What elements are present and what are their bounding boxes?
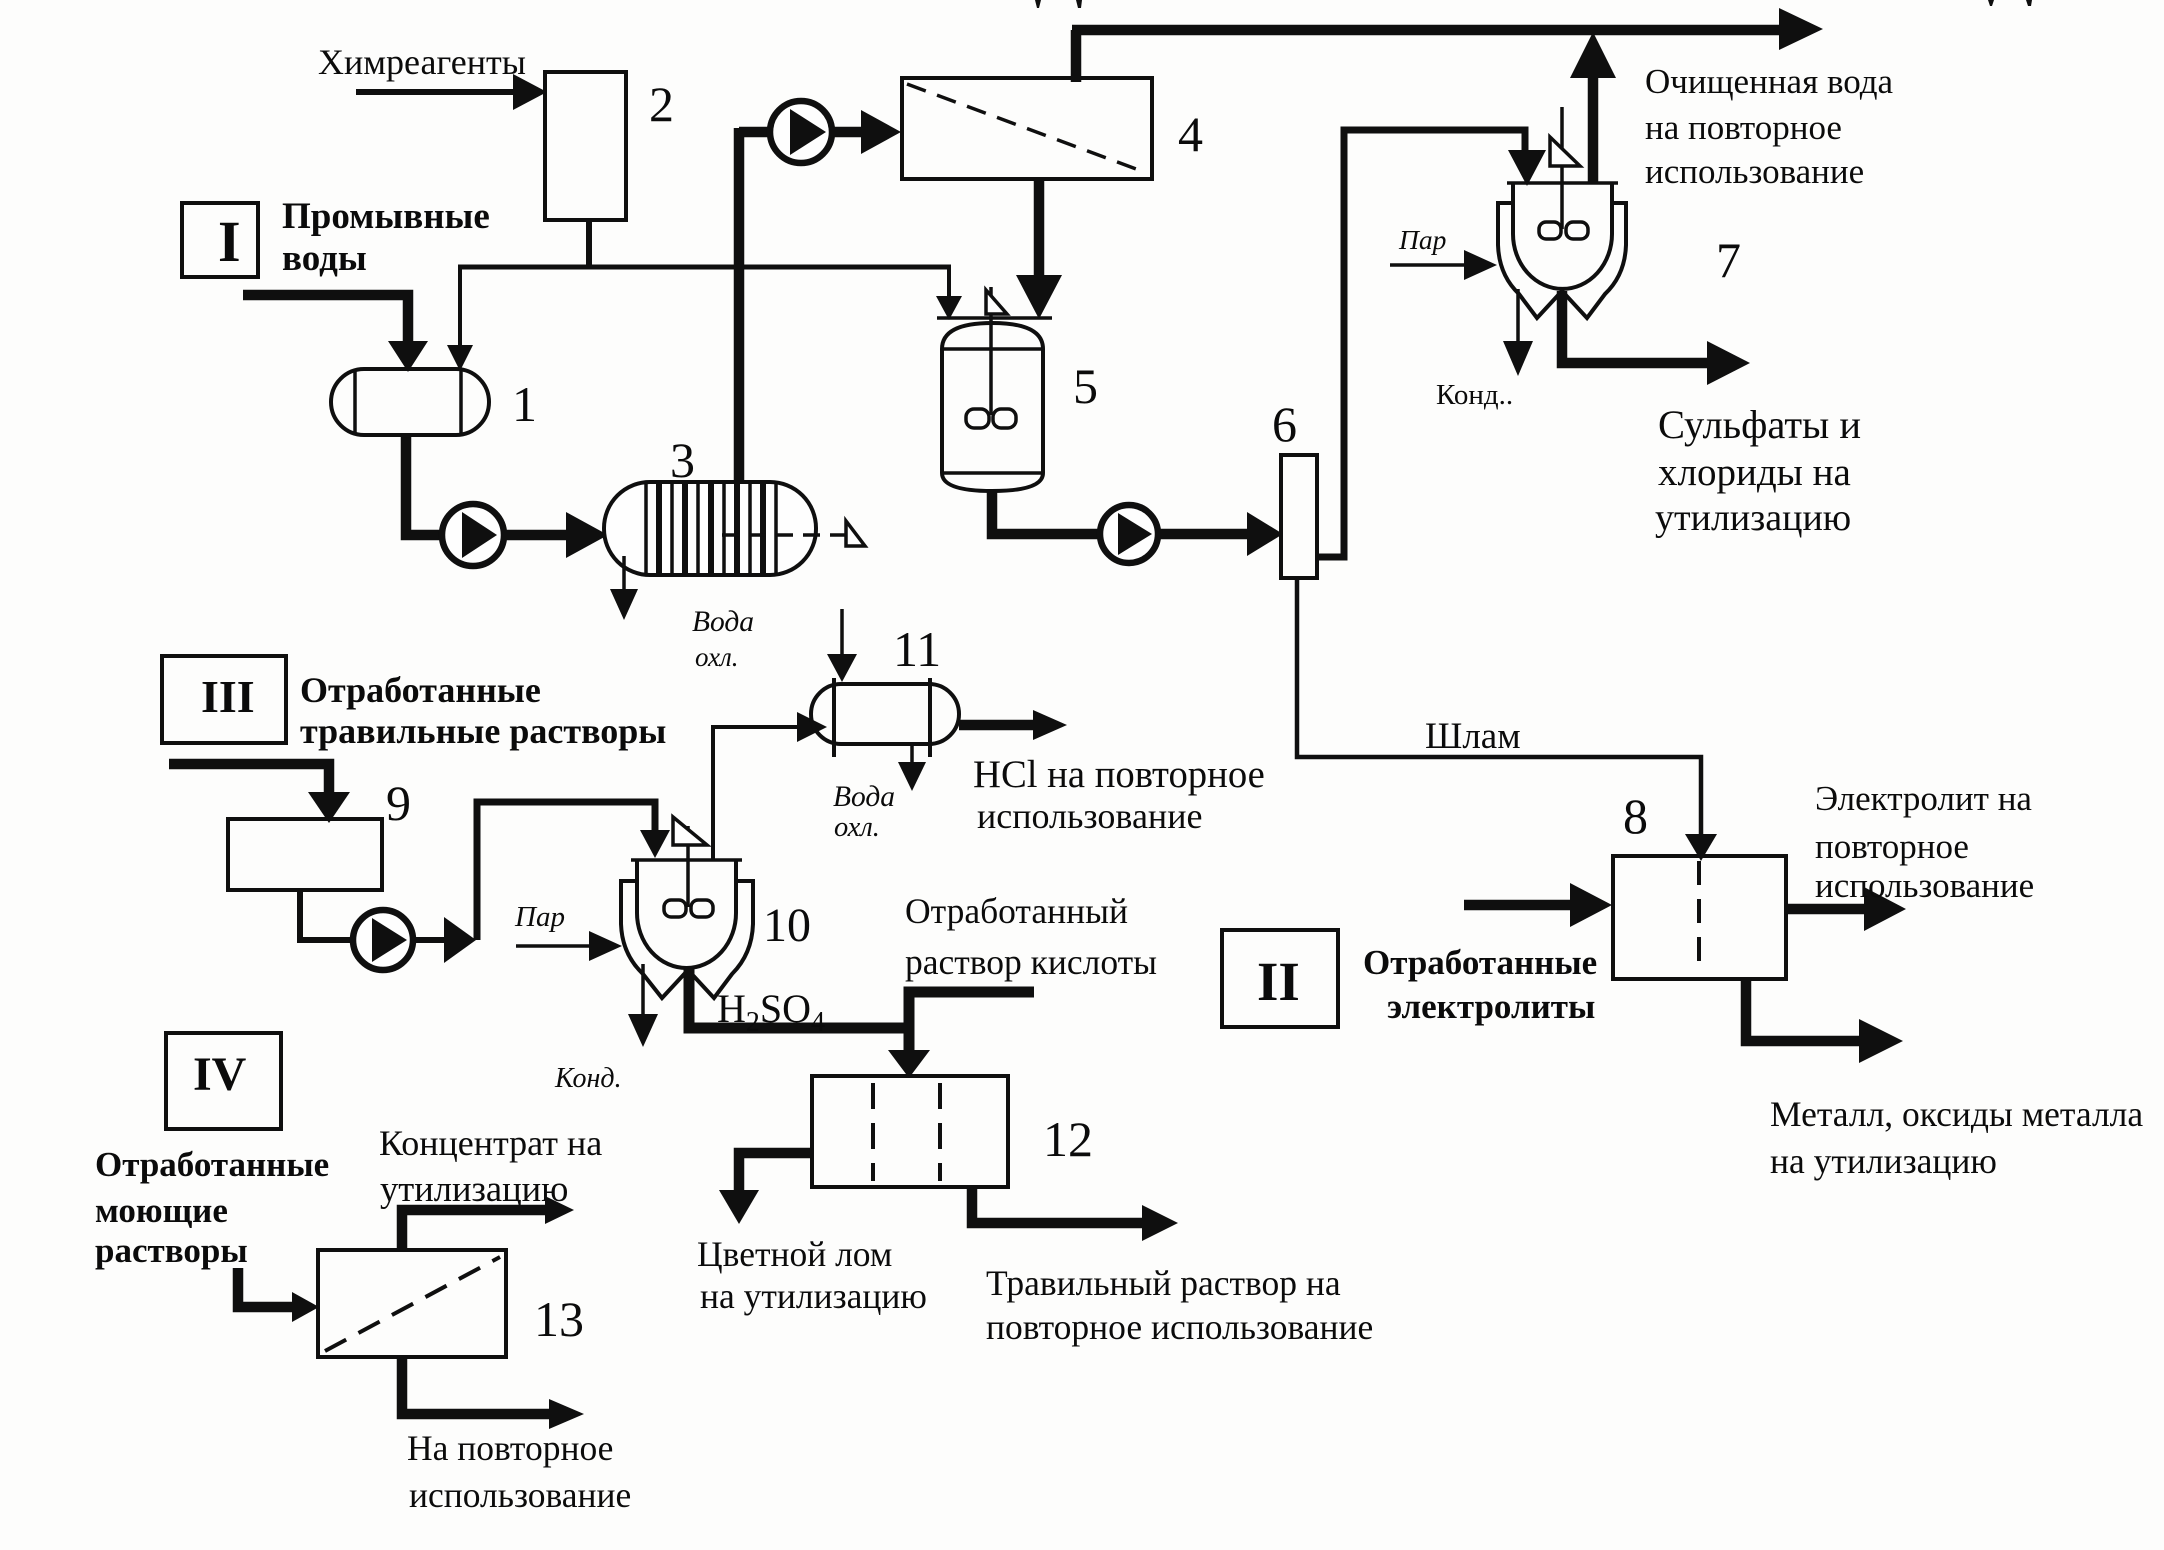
svg-text:охл.: охл. — [834, 812, 880, 843]
label: Отработанные моющие растворы — [95, 1145, 329, 1270]
label: Шлам — [1425, 716, 1521, 757]
svg-text:электролиты: электролиты — [1387, 987, 1595, 1026]
vessel 10 (evaporator with agitator) — [621, 817, 753, 998]
svg-text:травильные растворы: травильные растворы — [300, 711, 666, 751]
label: Вода охл. (condenser 11) — [833, 781, 895, 843]
wire: pump P1 discharge arrow into vessel 3 — [505, 512, 608, 558]
svg-text:Вода: Вода — [833, 781, 895, 813]
svg-text:13: 13 — [534, 1291, 584, 1347]
wire: box 8 right outlet arrow (electrolyte) — [1786, 887, 1906, 931]
wire: manifold corner to pump P2 — [739, 127, 772, 138]
wire: vessel 5 outlet to pump P3 — [992, 491, 1102, 534]
scan artifact: clipped descender tick 3 — [1988, 0, 1994, 6]
svg-text:повторное: повторное — [1815, 827, 1969, 866]
wire: box 2 bottom stub — [586, 220, 592, 269]
svg-text:использование: использование — [1645, 152, 1864, 191]
vessel 5 (reactor with agitator) — [937, 287, 1052, 491]
label: Пар (vessel 10) — [514, 901, 565, 933]
label: 4 — [1178, 106, 1203, 162]
wire: distribution manifold — [458, 265, 951, 270]
svg-text:Концентрат на: Концентрат на — [379, 1123, 602, 1163]
svg-text:Металл, оксиды металла: Металл, оксиды металла — [1770, 1094, 2143, 1134]
svg-text:Конд.: Конд. — [554, 1063, 622, 1094]
svg-text:Отработанные: Отработанные — [1363, 943, 1597, 982]
wire: vessel 7 bottom outlet thick arrow (sulphates) — [1562, 291, 1750, 385]
box 4 (membrane unit) — [902, 78, 1152, 179]
label: 13 — [534, 1291, 584, 1347]
svg-text:12: 12 — [1043, 1111, 1093, 1167]
svg-text:Пар: Пар — [1398, 224, 1446, 255]
wire: pump P4 discharge arrow to riser — [411, 917, 476, 963]
svg-text:9: 9 — [386, 775, 411, 831]
wire: vessel 3 drain thin arrow — [610, 556, 638, 620]
wire: thick feed line down into vessel 3 — [734, 128, 745, 482]
wire: thick arrow from I into vessel 1 — [243, 295, 428, 372]
label: 1 — [512, 376, 537, 432]
svg-text:7: 7 — [1716, 232, 1741, 288]
wire: box 13 top outlet arrow (concentrate) — [402, 1196, 574, 1250]
svg-text:хлориды на: хлориды на — [1658, 451, 1851, 494]
wire: filter 6 to vessel 7 riser — [1317, 130, 1546, 557]
label: Электролит на повторное использование — [1815, 779, 2034, 905]
svg-text:раствор кислоты: раствор кислоты — [905, 942, 1157, 982]
label: 10 — [763, 899, 811, 952]
box 8 (electrolysis unit) — [1613, 856, 1786, 979]
svg-text:Химреагенты: Химреагенты — [318, 42, 526, 82]
wire: IV feed arrow into box 13 — [238, 1268, 319, 1322]
svg-text:H2SO4: H2SO4 — [717, 986, 825, 1038]
wire: шлам line from filter 6 to box 8 — [1297, 578, 1717, 861]
svg-text:II: II — [1257, 951, 1300, 1012]
vessel 7 (evaporator with agitator) — [1498, 107, 1626, 318]
wire: пар arrow into vessel 10 — [516, 931, 622, 961]
svg-text:3: 3 — [670, 432, 695, 488]
svg-text:Электролит на: Электролит на — [1815, 779, 2032, 818]
svg-text:использование: использование — [977, 796, 1202, 836]
label: Очищенная вода на повторное использование — [1645, 62, 1894, 191]
label: 8 — [1623, 788, 1648, 844]
svg-text:растворы: растворы — [95, 1231, 248, 1270]
wire: pump P3 discharge arrow into filter 6 — [1158, 512, 1283, 556]
label: Промывные воды — [282, 196, 490, 279]
svg-text:8: 8 — [1623, 788, 1648, 844]
label: Отработанные травильные растворы — [300, 670, 666, 751]
svg-text:5: 5 — [1073, 358, 1098, 414]
svg-text:использование: использование — [1815, 866, 2034, 905]
wire: vessel 3 dashed level line with flag — [722, 521, 865, 546]
box 12 (electrolysis bath) — [812, 1076, 1008, 1187]
wire: thin arrow from manifold into vessel 5 — [936, 269, 962, 320]
svg-text:Шлам: Шлам — [1425, 716, 1521, 757]
svg-text:10: 10 — [763, 899, 811, 952]
wire: vessel 1 outlet to pump P1 — [406, 435, 447, 535]
label: Отработанные электролиты — [1363, 943, 1597, 1026]
box III (stream III source) — [162, 656, 286, 743]
item 6 (filter) — [1281, 455, 1317, 578]
box II (stream II source) — [1222, 930, 1338, 1027]
vessel 1 (receiver drum) — [331, 369, 489, 435]
label: Конд.. (vessel 7) — [1436, 379, 1513, 411]
wire: cooling water thin arrow into condenser 11 — [827, 609, 857, 682]
svg-text:I: I — [218, 209, 241, 274]
svg-text:Промывные: Промывные — [282, 196, 490, 237]
pump P3 — [1100, 505, 1158, 563]
label: Концентрат на утилизацию — [379, 1123, 602, 1209]
pump P1 — [442, 504, 504, 566]
wire: condenser 11 outlet thick arrow (HCl) — [959, 710, 1067, 740]
svg-text:Травильный раствор на: Травильный раствор на — [986, 1263, 1341, 1303]
label: Вода охл. (vessel 3) — [692, 606, 754, 672]
label: Химреагенты — [318, 42, 526, 82]
label: 2 — [649, 76, 674, 132]
vessel 11 (condenser) — [811, 678, 959, 757]
label: 9 — [386, 775, 411, 831]
scan artifact: clipped descender tick 1 — [1035, 0, 1041, 8]
svg-text:1: 1 — [512, 376, 537, 432]
wire: box 4 bottom thick arrow into vessel 5 — [1016, 179, 1062, 319]
svg-text:IV: IV — [193, 1048, 247, 1101]
pump P2 — [770, 101, 832, 163]
svg-text:повторное использование: повторное использование — [986, 1307, 1373, 1347]
svg-text:III: III — [201, 671, 255, 722]
svg-text:6: 6 — [1272, 396, 1297, 452]
svg-text:моющие: моющие — [95, 1191, 228, 1230]
wire: химреагенты feed arrow into box 2 — [356, 74, 547, 110]
svg-text:на утилизацию: на утилизацию — [1770, 1141, 1997, 1181]
svg-text:Сульфаты и: Сульфаты и — [1658, 402, 1861, 447]
svg-text:Очищенная вода: Очищенная вода — [1645, 62, 1894, 101]
label: 6 — [1272, 396, 1297, 452]
svg-text:Цветной лом: Цветной лом — [697, 1234, 892, 1274]
label: HCl на повторное использование — [973, 754, 1265, 836]
wire: thin arrow from manifold into vessel 1 — [447, 269, 473, 371]
wire: отработанный раствор кислоты line — [888, 992, 1034, 1078]
label: Конд. (vessel 10) — [554, 1063, 622, 1094]
vessel 3 (heat exchanger) — [604, 482, 816, 575]
svg-text:НСl на повторное: НСl на повторное — [973, 754, 1265, 796]
wire: пар arrow into vessel 7 — [1390, 250, 1497, 280]
label: 12 — [1043, 1111, 1093, 1167]
box 2 (reagent tank) — [545, 72, 626, 220]
wire: vessel 10 vapor line to condenser 11 — [713, 712, 827, 860]
label: 11 — [893, 621, 941, 677]
box 9 (collection tank) — [228, 819, 382, 890]
svg-text:утилизацию: утилизацию — [380, 1168, 568, 1209]
svg-text:11: 11 — [893, 621, 941, 677]
label: H2SO4 — [717, 986, 825, 1038]
wire: vessel 10 bottom H2SO4 outlet — [689, 966, 904, 1028]
wire: riser line into vessel 10 — [477, 802, 670, 940]
svg-text:Пар: Пар — [514, 901, 565, 933]
wire: vessel 7 purified water up arrow — [1570, 32, 1616, 183]
label: Цветной лом на утилизацию — [697, 1234, 927, 1316]
wire: box 8 bottom outlet arrow (metal) — [1746, 979, 1903, 1063]
label: 5 — [1073, 358, 1098, 414]
label: Травильный раствор на повторное использование — [986, 1263, 1373, 1347]
svg-text:Отработанные: Отработанные — [95, 1145, 329, 1184]
label: 7 — [1716, 232, 1741, 288]
pump P4 — [353, 910, 413, 970]
wire: vessel 10 condensate down arrow — [628, 964, 658, 1047]
wire: box 12 left outlet down arrow — [719, 1153, 812, 1224]
svg-text:Конд..: Конд.. — [1436, 379, 1513, 411]
svg-text:Отработанные: Отработанные — [300, 670, 541, 710]
svg-text:утилизацию: утилизацию — [1655, 497, 1851, 539]
svg-text:охл.: охл. — [695, 642, 738, 672]
svg-text:на повторное: на повторное — [1645, 108, 1842, 147]
wire: box 13 bottom outlet arrow (reuse) — [402, 1357, 584, 1429]
label: Пар (vessel 7) — [1398, 224, 1446, 255]
svg-text:использование: использование — [409, 1475, 631, 1515]
label: Сульфаты и хлориды на утилизацию — [1655, 402, 1861, 539]
wire: condenser 11 cooling water out down arrow — [898, 744, 926, 791]
scan artifact: clipped descender tick 4 — [2026, 0, 2032, 6]
svg-text:Отработанный: Отработанный — [905, 891, 1128, 931]
svg-text:на утилизацию: на утилизацию — [700, 1276, 927, 1316]
wire: box 4 top line to reuse (thick top arrow) — [1072, 8, 1823, 82]
wire: vessel 7 condensate thin down arrow — [1503, 289, 1533, 376]
svg-text:Вода: Вода — [692, 606, 754, 638]
wire: box 9 outlet to pump P4 — [300, 890, 354, 940]
wire: pump P2 discharge arrow into box 4 — [829, 110, 901, 154]
scan artifact: clipped descender tick 2 — [1076, 0, 1082, 8]
label: 3 — [670, 432, 695, 488]
svg-text:2: 2 — [649, 76, 674, 132]
box 13 (membrane unit) — [318, 1250, 506, 1357]
label: Отработанный раствор кислоты — [905, 891, 1157, 982]
wire: II feed arrow into box 8 — [1464, 883, 1612, 927]
svg-text:На повторное: На повторное — [407, 1428, 613, 1468]
wire: box 12 bottom outlet arrow right — [972, 1187, 1178, 1241]
box I (stream I source) — [182, 203, 258, 277]
label: Металл, оксиды металла на утилизацию — [1770, 1094, 2143, 1181]
box IV (stream IV source) — [166, 1033, 281, 1129]
svg-text:4: 4 — [1178, 106, 1203, 162]
label: На повторное использование — [407, 1428, 631, 1515]
svg-text:воды: воды — [282, 238, 367, 279]
wire: III feed arrow into box 9 — [169, 764, 350, 823]
